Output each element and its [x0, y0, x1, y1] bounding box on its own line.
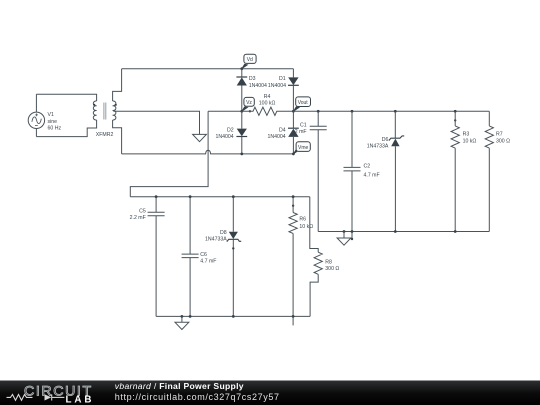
- svg-text:300 Ω: 300 Ω: [325, 266, 339, 272]
- wire secondary center tap: [113, 111, 199, 134]
- junction C5 top: [155, 195, 158, 198]
- C6 labels: [200, 252, 216, 264]
- junction Vme node: [292, 153, 295, 156]
- svg-text:R7: R7: [496, 132, 503, 138]
- wire Vout rail: [293, 110, 489, 112]
- junction R3 top: [454, 110, 457, 113]
- logo squiggle wire-resistor-diode: [7, 394, 65, 400]
- flag Vd: [242, 54, 256, 68]
- resistor R3: [451, 111, 459, 231]
- D2 labels: [216, 128, 234, 140]
- svg-text:R4: R4: [264, 94, 271, 100]
- primary phase dot: [93, 104, 95, 106]
- svg-text:4.7 mF: 4.7 mF: [200, 258, 216, 264]
- svg-text:Vz: Vz: [246, 100, 252, 106]
- svg-text:10 kΩ: 10 kΩ: [463, 138, 477, 144]
- svg-text:100 kΩ: 100 kΩ: [259, 100, 276, 106]
- wire R6 stub below rail: [292, 316, 294, 325]
- R7 labels: [496, 132, 510, 145]
- junction R6 bottom: [292, 315, 295, 318]
- junction R6 top: [292, 195, 295, 198]
- C1 labels: [295, 123, 307, 135]
- svg-text:Vme: Vme: [298, 145, 309, 151]
- svg-text:1N4004: 1N4004: [249, 83, 267, 89]
- flag Vz: [242, 97, 254, 111]
- svg-text:C1: C1: [300, 123, 307, 129]
- junction C2 bottom: [351, 230, 354, 233]
- resistor R4: [242, 107, 294, 115]
- zener diode D6: [389, 111, 404, 231]
- wire feeder to lower stage: [130, 111, 208, 196]
- wire lower stage top rail: [130, 196, 309, 198]
- svg-text:R6: R6: [299, 217, 306, 223]
- D3 labels: [249, 76, 267, 89]
- capacitor C1: [310, 111, 327, 231]
- junction upper ground: [343, 230, 346, 233]
- svg-text:LAB: LAB: [66, 394, 95, 405]
- svg-text:D2: D2: [227, 128, 234, 134]
- R6 labels: [299, 217, 313, 230]
- D8 labels: [205, 230, 227, 242]
- svg-text:V1: V1: [48, 112, 54, 118]
- svg-text:4.7 mF: 4.7 mF: [364, 172, 380, 178]
- svg-text:D3: D3: [249, 76, 256, 82]
- D1 labels: [268, 76, 286, 89]
- junction lower ground: [181, 315, 184, 318]
- wire Vme rail with hop: [122, 150, 294, 154]
- transformer XFMR2 secondary coil: [113, 101, 116, 120]
- svg-text:60 Hz: 60 Hz: [48, 125, 62, 131]
- svg-text:300 Ω: 300 Ω: [496, 138, 510, 144]
- svg-text:2.2 mF: 2.2 mF: [130, 215, 146, 221]
- svg-text:vbarnard / Final Power Supply: vbarnard / Final Power Supply: [115, 381, 244, 391]
- R4 labels: [259, 94, 276, 106]
- diode D2: [236, 111, 247, 154]
- C2 labels: [364, 164, 380, 179]
- wire secondary top: [113, 69, 122, 101]
- transformer XFMR2 primary coil: [93, 101, 96, 120]
- svg-text:10 kΩ: 10 kΩ: [299, 224, 313, 230]
- footer bar: [0, 381, 540, 405]
- svg-text:XFMR2: XFMR2: [96, 132, 114, 138]
- junction C1 top: [317, 110, 320, 113]
- junction C2 top: [351, 110, 354, 113]
- junction R3 bottom: [454, 230, 457, 233]
- voltage source V1: [28, 112, 44, 128]
- R8 labels: [325, 259, 339, 272]
- svg-text:Vd: Vd: [247, 57, 253, 63]
- diode D4: [288, 111, 299, 154]
- R3 labels: [463, 132, 477, 145]
- svg-text:R8: R8: [325, 259, 332, 265]
- junction D2 bottom: [240, 153, 243, 156]
- D6 labels: [367, 137, 389, 150]
- wire Vz rail: [208, 110, 242, 112]
- junction C6 bottom: [189, 315, 192, 318]
- wire lower rail end drop to R8: [310, 197, 318, 253]
- resistor R7: [485, 111, 493, 231]
- D4 labels: [268, 128, 286, 140]
- V1 value label: [48, 112, 62, 131]
- svg-text:D6: D6: [382, 137, 389, 143]
- svg-text:1N4733A: 1N4733A: [205, 236, 227, 242]
- svg-text:R3: R3: [463, 132, 470, 138]
- svg-text:C5: C5: [139, 208, 146, 214]
- wire V1 bottom: [35, 129, 37, 137]
- svg-text:C6: C6: [200, 252, 207, 258]
- junction D8 bottom: [232, 315, 235, 318]
- wire top rail Vd net: [122, 68, 294, 70]
- capacitor C2: [344, 111, 361, 239]
- diode D1: [288, 69, 299, 112]
- C5 labels: [130, 208, 146, 220]
- wire primary top rail: [36, 94, 96, 101]
- diode D3: [236, 69, 247, 112]
- junction C6 top: [189, 195, 192, 198]
- svg-text:1N4004: 1N4004: [216, 134, 234, 140]
- svg-text:D8: D8: [220, 230, 227, 236]
- wire primary bottom: [36, 120, 96, 137]
- ground (upper stage): [337, 232, 351, 246]
- wire secondary bottom: [113, 120, 122, 154]
- svg-text:D4: D4: [279, 128, 286, 134]
- zener diode D8: [227, 197, 241, 317]
- R3 terminal dot: [454, 119, 456, 121]
- wire upper bottom rail: [318, 231, 489, 233]
- svg-text:C2: C2: [364, 164, 371, 170]
- capacitor C6: [182, 197, 199, 317]
- junction Vz node: [240, 110, 243, 113]
- flag Vout: [293, 97, 310, 111]
- secondary phase dot: [115, 104, 117, 106]
- wire lower bottom rail: [156, 315, 310, 317]
- svg-text:2 mF: 2 mF: [295, 129, 307, 135]
- wire V1 top: [35, 94, 37, 112]
- D8 terminal dot: [232, 247, 234, 249]
- junction Vd node: [240, 67, 243, 70]
- svg-text:D1: D1: [279, 76, 286, 82]
- capacitor C5: [148, 197, 165, 317]
- junction D6 bottom: [394, 230, 397, 233]
- junction D6 top: [394, 110, 397, 113]
- svg-text:1N4733A: 1N4733A: [367, 143, 389, 149]
- resistor R8: [310, 252, 322, 316]
- R6 terminal dot: [292, 205, 294, 207]
- flag Vme: [293, 142, 310, 154]
- C2 stub end dot: [351, 238, 353, 240]
- svg-text:sine: sine: [48, 119, 58, 125]
- svg-text:http://circuitlab.com/c327q7cs: http://circuitlab.com/c327q7cs27y57: [115, 392, 280, 402]
- svg-text:Vout: Vout: [298, 100, 309, 106]
- ground (lower stage): [175, 316, 189, 329]
- svg-text:1N4004: 1N4004: [268, 134, 286, 140]
- resistor R6: [289, 197, 297, 317]
- junction R4 left terminal: [249, 110, 251, 112]
- ground (center tap): [193, 134, 207, 141]
- transformer core: [104, 103, 106, 120]
- junction Vout node: [292, 110, 295, 113]
- junction D8 top: [232, 195, 235, 198]
- svg-text:1N4004: 1N4004: [268, 83, 286, 89]
